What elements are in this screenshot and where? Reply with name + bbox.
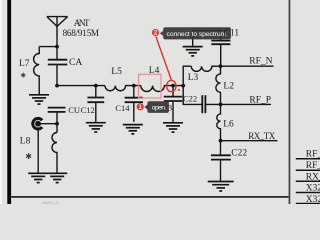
wire RF_N — [221, 65, 274, 67]
node: antenna / CA / L7 — [55, 45, 59, 49]
RF connector J1 ring — [33, 118, 42, 129]
svg-text:L6: L6 — [223, 120, 234, 130]
svg-text:connect to spectrum.: connect to spectrum. — [167, 31, 229, 38]
capacitor C13 shunt — [172, 86, 174, 96]
capacitor C22 shunt — [220, 141, 222, 155]
node: rail at L3 branch — [181, 84, 185, 88]
red highlight ellipse on node — [167, 80, 176, 91]
svg-text:✱: ✱ — [21, 72, 27, 80]
wire node A to L7 — [39, 46, 57, 48]
svg-text:X32K_Q1: X32K_Q1 — [306, 184, 320, 194]
node: L6 / C22 / RX_TX — [219, 139, 223, 143]
right edge net stub wires — [296, 158, 320, 160]
left window border bar — [7, 0, 11, 204]
inductor L5 — [105, 86, 141, 91]
svg-text:C14: C14 — [115, 103, 130, 113]
svg-text:C22: C22 — [183, 93, 197, 103]
wire C11 to ground stub (hidden by tooltip) — [193, 30, 221, 32]
bottom frame line — [11, 196, 289, 198]
svg-text:RF_P: RF_P — [249, 96, 271, 106]
connector stem to ground — [37, 130, 39, 173]
ground under shunt C22 (large style) — [208, 182, 234, 192]
capacitor C14 shunt — [133, 86, 135, 98]
main rail wire — [57, 85, 105, 87]
badge 1 — [137, 103, 144, 111]
capacitor C11 stem and plates — [220, 31, 222, 40]
wire connector to node — [38, 123, 57, 125]
node: L3 / C11 / L2 / RF_N — [219, 64, 223, 68]
svg-text:C22: C22 — [231, 148, 247, 158]
ground under C13 — [163, 123, 183, 132]
wire RF_P — [206, 103, 271, 105]
svg-text:RF_N: RF_N — [249, 56, 272, 66]
capacitor CU (series to connector) — [48, 107, 66, 109]
node: C22 / L2 / L6 / RF_P — [219, 103, 223, 107]
svg-text:L3: L3 — [188, 73, 199, 83]
svg-text:X32K_Q2: X32K_Q2 — [306, 195, 320, 204]
inductor L6 — [217, 104, 221, 140]
svg-text:L5: L5 — [111, 67, 122, 77]
svg-text:RF_N: RF_N — [306, 149, 320, 159]
node: rail at CA — [55, 84, 59, 88]
svg-text:8M1-0: 8M1-0 — [43, 202, 59, 205]
ground under C14 — [123, 125, 143, 134]
inductor L4 — [141, 86, 183, 92]
svg-text:868/915M: 868/915M — [63, 28, 100, 38]
inductor L8 — [52, 133, 57, 173]
svg-text:L2: L2 — [223, 82, 234, 92]
inductor L2 — [216, 66, 221, 104]
inductor L7 — [34, 47, 40, 94]
tooltip 1: open — [144, 101, 169, 113]
ground under L7 — [29, 95, 49, 104]
svg-text:CA: CA — [69, 58, 82, 68]
red callout line from badge 2 to node — [156, 37, 172, 81]
inductor L3 — [191, 66, 220, 71]
connector center pin — [35, 121, 41, 127]
svg-text:RX_TX: RX_TX — [248, 131, 275, 141]
right frame line — [289, 0, 291, 204]
wire RX_TX — [221, 140, 278, 142]
capacitor CA (series on antenna line) — [56, 47, 58, 59]
svg-text:open.: open. — [152, 105, 167, 112]
svg-text:✱: ✱ — [25, 152, 32, 161]
junction dots — [35, 45, 222, 143]
svg-text:RX_TX: RX_TX — [306, 172, 320, 182]
svg-text:C12: C12 — [81, 105, 95, 115]
wire node B up to L3 run — [183, 66, 191, 85]
node: rail at C13 (highlighted) — [171, 84, 175, 88]
svg-text:L7: L7 — [19, 59, 30, 69]
svg-text:RF_P: RF_P — [306, 161, 320, 171]
ground at C11 / spectrum stub — [183, 47, 203, 56]
red highlight box around L4 — [139, 74, 162, 98]
wire node B down to series C22 — [183, 86, 201, 105]
ground under connector — [28, 173, 48, 182]
antenna ANT symbol — [47, 17, 68, 47]
svg-text:C11: C11 — [224, 28, 240, 38]
capacitor C12 shunt — [95, 86, 97, 97]
node: rail at C12 — [94, 84, 98, 88]
svg-text:L8: L8 — [20, 137, 31, 147]
small red tick right of ellipse — [178, 89, 180, 92]
ground under C12 — [86, 123, 106, 132]
tooltip 2: connect to spectrum — [160, 27, 231, 39]
capacitor C22 series plates — [201, 95, 203, 113]
node: rail at C14 — [132, 84, 136, 88]
node: CU / connector / L8 — [55, 122, 59, 126]
badge 2 — [152, 29, 159, 37]
ground under L8 — [47, 173, 67, 182]
svg-text:CU: CU — [68, 105, 80, 115]
